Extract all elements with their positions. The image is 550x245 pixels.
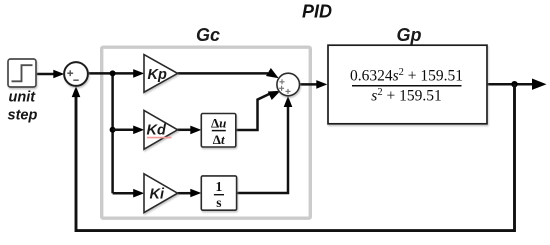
- arrow into 1/s block: [190, 189, 201, 198]
- wire Ki to 1/s block: [178, 192, 194, 195]
- gain triangle Ki: [144, 174, 178, 213]
- node dot B: [110, 127, 116, 133]
- svg-text:Gc: Gc: [196, 25, 220, 45]
- node dot output: [511, 81, 517, 87]
- node dot A: [110, 70, 116, 76]
- arrow into Kp: [133, 69, 144, 78]
- arrow into du/dt block: [190, 126, 201, 135]
- controller box Gc: [102, 47, 311, 218]
- derivative block du/dt: [201, 114, 236, 148]
- wire Gp to output: [487, 83, 533, 86]
- node branch vertical: [111, 73, 114, 193]
- svg-text:Δt: Δt: [213, 132, 225, 147]
- arrow into sum1: [53, 70, 64, 79]
- svg-text:Gp: Gp: [397, 25, 422, 45]
- summing junction S2: [277, 73, 300, 96]
- svg-text:unit: unit: [9, 90, 37, 106]
- integrator block 1/s: [201, 176, 236, 210]
- svg-text:1: 1: [216, 179, 223, 194]
- svg-text:Δu: Δu: [211, 116, 226, 131]
- arrow 1/s into sum2 (up): [284, 96, 293, 107]
- feedback wire: [76, 84, 515, 230]
- feedback arrow into sum1 (up): [72, 86, 81, 97]
- arrow du/dt into sum2 (angled): [268, 86, 283, 100]
- svg-text:Kp: Kp: [148, 67, 167, 83]
- wire sum2 to Gp: [299, 83, 319, 86]
- S1 minus sign: [73, 79, 78, 81]
- arrow Kp into sum2 (angled): [266, 68, 281, 82]
- plant block Gp: [328, 45, 487, 124]
- output arrow: [532, 79, 547, 90]
- svg-text:s2 + 159.51: s2 + 159.51: [371, 87, 441, 105]
- S1 plus sign: [67, 70, 73, 76]
- wire du/dt to sum2: [236, 93, 271, 130]
- gain triangle Kp: [144, 55, 178, 93]
- wire step to sum1: [36, 73, 57, 76]
- svg-text:Kd: Kd: [147, 123, 167, 139]
- wire branch to Ki: [113, 192, 136, 195]
- S2 plus sign 1: [280, 79, 285, 84]
- arrow into Gp: [316, 80, 327, 89]
- gain triangle Kd: [144, 110, 178, 149]
- spellcheck underline under Kd: [147, 137, 172, 139]
- svg-text:s: s: [216, 195, 221, 210]
- step source block: [8, 59, 36, 87]
- Gp fraction bar: [352, 85, 462, 87]
- svg-text:step: step: [8, 108, 38, 124]
- wire Kp to sum2: [178, 72, 268, 75]
- arrow into Kd: [133, 126, 144, 135]
- S2 plus sign 2: [279, 86, 284, 91]
- wire 1/s to sum2: [237, 100, 288, 193]
- summing junction S1: [64, 62, 88, 86]
- wire Kd to du/dt block: [178, 129, 194, 132]
- du/dt fraction bar: [212, 130, 226, 132]
- wire branch to Kd: [113, 129, 136, 132]
- wire sum1 to Kp: [88, 72, 136, 75]
- step waveform: [12, 65, 33, 81]
- svg-text:Ki: Ki: [150, 186, 165, 202]
- S2 plus sign 3: [286, 89, 291, 94]
- arrow into Ki: [133, 189, 144, 198]
- svg-text:0.6324s2 + 159.51: 0.6324s2 + 159.51: [350, 67, 463, 85]
- svg-text:PID: PID: [302, 1, 332, 21]
- 1/s fraction bar: [214, 194, 224, 196]
